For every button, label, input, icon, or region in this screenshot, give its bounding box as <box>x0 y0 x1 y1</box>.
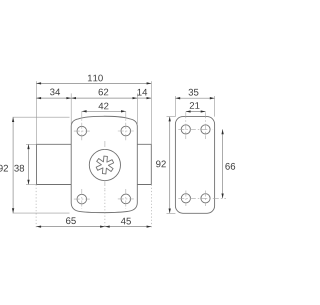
plate hole top-left <box>181 125 190 134</box>
extension line plate left edge up <box>174 96 176 117</box>
centerline plate hole bottom-right vertical <box>205 191 207 207</box>
plate hole bottom-right <box>201 194 210 203</box>
dimension 110 <box>36 82 151 84</box>
centerline plate hole bottom-left vertical <box>185 191 187 207</box>
dimension 38 <box>28 144 30 184</box>
dimension 14 <box>137 97 151 99</box>
centerline hole top-left <box>81 111 83 141</box>
dimension 62 <box>71 97 137 99</box>
cylinder circle <box>89 149 120 180</box>
extension housing left edge down <box>35 185 37 229</box>
centerline hole top-right <box>125 111 127 141</box>
extension line body right edge up <box>136 93 138 125</box>
extension line plate bottom left <box>167 212 176 214</box>
extension bolt right edge down <box>150 185 152 229</box>
extension line housing bottom <box>26 184 37 186</box>
centerline cylinder vertical <box>104 141 106 150</box>
extension line plate right edge up <box>214 96 216 117</box>
centerline hole bottom-right <box>118 198 134 200</box>
extension line housing top <box>26 143 37 145</box>
dimension 92 left <box>12 117 14 213</box>
dimension 34 <box>36 97 71 99</box>
dimension 35 <box>175 97 214 99</box>
screw hole top-right <box>121 126 131 136</box>
dimension 65 <box>36 226 105 228</box>
centerline plate hole top-right vertical <box>205 112 207 139</box>
dimension 45 <box>105 226 151 228</box>
dimension 66 <box>222 129 224 198</box>
plate hole top-right <box>201 125 210 134</box>
right bolt stub <box>137 144 151 184</box>
lock body outline <box>71 116 137 212</box>
centerline plate bottom holes horizontal <box>178 197 226 199</box>
screw hole bottom-left <box>77 194 87 204</box>
cylinder centerline extension to bottom dims <box>104 190 106 227</box>
dimension 92 right <box>169 117 171 214</box>
cylinder star keyway <box>96 156 113 174</box>
left bolt housing <box>37 144 72 184</box>
centerline hole bottom-left <box>81 189 83 209</box>
extension line housing left edge up <box>35 81 37 144</box>
extension line plate top left <box>167 116 176 118</box>
centerline plate hole top-left vertical <box>185 112 187 139</box>
strike plate outline <box>175 117 214 214</box>
dimension 21 <box>186 111 206 113</box>
screw hole bottom-right <box>121 194 131 204</box>
dimension 42 <box>82 110 126 112</box>
extension line body top <box>13 116 70 118</box>
extension line body left edge up <box>70 93 72 124</box>
centerline plate top holes horizontal <box>178 128 213 130</box>
plate hole bottom-left <box>181 194 190 203</box>
extension line body bottom <box>13 212 70 214</box>
screw hole top-left <box>77 126 87 136</box>
extension line bolt right edge up <box>150 81 152 144</box>
